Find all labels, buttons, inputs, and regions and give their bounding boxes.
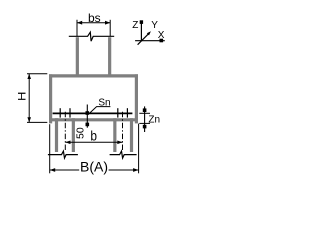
svg-text:B(A): B(A) — [80, 159, 108, 175]
svg-text:Sn: Sn — [98, 97, 110, 108]
svg-text:b: b — [90, 127, 97, 143]
svg-text:bs: bs — [88, 11, 101, 25]
svg-text:X: X — [158, 30, 165, 41]
svg-text:H: H — [16, 92, 29, 101]
svg-text:50: 50 — [74, 127, 86, 139]
svg-text:Z: Z — [132, 20, 138, 31]
svg-text:Zn: Zn — [148, 114, 160, 125]
